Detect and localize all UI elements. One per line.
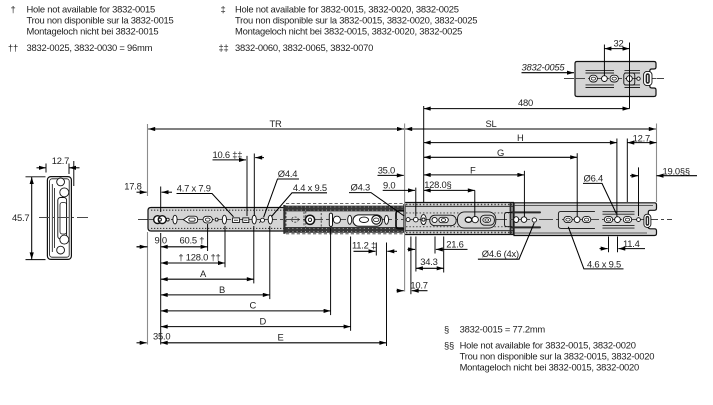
ball top inner [60, 188, 69, 197]
intermediate overlap zone dark retainer bars [284, 206, 405, 212]
svg-text:128.0§: 128.0§ [424, 179, 451, 190]
intermediate rear capsule 1 [430, 215, 457, 226]
svg-text:Montageloch nicht bei 3832-001: Montageloch nicht bei 3832-0015 [27, 25, 159, 36]
svg-text:A: A [200, 268, 207, 279]
svg-text:3832-0025, 3832-0030 = 96mm: 3832-0025, 3832-0030 = 96mm [27, 42, 153, 53]
gray ref line cabinet rear / TR-SL split [404, 124, 406, 292]
svg-text:Trou non disponible sur la 383: Trou non disponible sur la 3832-0015, 38… [460, 351, 655, 362]
hole circle 32-left [602, 76, 608, 82]
drawer inner edge lines [514, 206, 653, 233]
slot oval mid [610, 75, 618, 82]
svg-text:10.7: 10.7 [410, 279, 427, 290]
intermediate exposed zone [405, 203, 515, 235]
small circle [637, 77, 640, 80]
slot oval left [589, 75, 597, 82]
intermediate front circles [406, 218, 410, 222]
svg-text:§: § [444, 324, 449, 335]
svg-text:Ø4.3: Ø4.3 [351, 181, 370, 192]
svg-text:‡: ‡ [221, 3, 226, 14]
g1 holes [514, 217, 519, 223]
square slot 10.6 [243, 218, 249, 223]
square slot 4.7x7.9 [233, 218, 240, 223]
gray ref line drawer rear end [656, 124, 658, 203]
centerline overlay xs [39, 217, 90, 219]
boxed square hole [624, 73, 635, 85]
svg-text:Hole not available for 3832-00: Hole not available for 3832-0015, 3832-0… [460, 340, 636, 351]
drawer member body [514, 203, 657, 236]
v-oval [173, 215, 177, 224]
svg-text:Ø4.4: Ø4.4 [278, 168, 297, 179]
svg-text:TR: TR [270, 118, 283, 129]
DETAIL VIEW (top right) [424, 37, 664, 108]
g3 holes [604, 217, 612, 223]
v-oval [222, 215, 226, 224]
svg-text:3832-0060, 3832-0065, 3832-007: 3832-0060, 3832-0065, 3832-0070 [235, 42, 373, 53]
svg-text:D: D [260, 316, 267, 327]
DIMENSIONS [124, 106, 697, 346]
svg-text:††: †† [8, 42, 18, 53]
small circle [215, 218, 218, 221]
svg-text:17.8: 17.8 [124, 181, 141, 192]
inner cabinet channel lines [52, 184, 54, 252]
drawer small circle [637, 218, 641, 222]
cabinet retainer dashes [151, 209, 284, 211]
intermediate rear end cap [510, 203, 512, 235]
svg-text:3832-0015 = 77.2mm: 3832-0015 = 77.2mm [460, 324, 546, 335]
disconnect cartridge [644, 71, 652, 85]
svg-text:H: H [517, 132, 524, 143]
drawer profile [58, 198, 67, 240]
svg-text:12.7: 12.7 [633, 132, 650, 143]
svg-text:Hole not available for 3832-00: Hole not available for 3832-0015, 3832-0… [235, 3, 459, 14]
svg-text:F: F [470, 165, 476, 176]
v-oval [252, 215, 256, 224]
intermediate front end edge [283, 205, 285, 234]
v-oval 4.4x9.5 [268, 215, 272, 224]
svg-text:11.4: 11.4 [623, 238, 640, 249]
ext drawer front end [423, 106, 425, 202]
drawer group2 bracket [558, 211, 595, 228]
centerline overlay main [148, 219, 656, 221]
svg-text:† 128.0 ††: † 128.0 †† [178, 251, 220, 262]
centerline overlay [575, 78, 656, 80]
svg-text:12.7: 12.7 [52, 155, 69, 166]
drawer disconnect cartridge [644, 214, 651, 227]
cabinet rear bracket [396, 211, 405, 229]
svg-text:3832-0055: 3832-0055 [522, 62, 566, 73]
outer profile [47, 177, 71, 260]
note block top-left [8, 3, 174, 53]
bold circle hole [305, 215, 314, 224]
svg-text:4.7 x 7.9: 4.7 x 7.9 [177, 182, 211, 193]
svg-text:Montageloch nicht bei 3832-001: Montageloch nicht bei 3832-0015, 3832-00… [460, 362, 639, 373]
svg-text:Hole not available for 3832-00: Hole not available for 3832-0015 [27, 3, 155, 14]
svg-text:Trou non disponible sur la 383: Trou non disponible sur la 3832-0015 [27, 14, 174, 25]
ball bottom outer [57, 246, 65, 254]
MAIN VIEW rail assembly [138, 203, 672, 236]
svg-text:9.0: 9.0 [155, 234, 167, 245]
svg-text:4.6 x 9.5: 4.6 x 9.5 [587, 259, 621, 270]
intermediate rear C-bracket [505, 213, 513, 227]
centerline [39, 217, 90, 219]
svg-text:19.0§§: 19.0§§ [663, 166, 690, 177]
upper groove slots [586, 70, 641, 73]
svg-text:10.6 ‡‡: 10.6 ‡‡ [213, 149, 243, 160]
circle hole 4.4 [261, 218, 265, 222]
svg-text:34.3: 34.3 [420, 256, 437, 267]
hidden intermediate edges dashed [286, 202, 404, 204]
svg-text:B: B [219, 284, 225, 295]
svg-text:Montageloch nicht bei 3832-001: Montageloch nicht bei 3832-0015, 3832-00… [235, 25, 462, 36]
svg-text:Ø4.6 (4x): Ø4.6 (4x) [482, 248, 519, 259]
centerline [564, 78, 664, 80]
g2 holes [564, 217, 572, 223]
svg-text:9.0: 9.0 [383, 179, 395, 190]
svg-text:‡‡: ‡‡ [219, 42, 229, 53]
note block top-middle [219, 3, 478, 53]
lobed lever hole [154, 216, 162, 224]
small circle [166, 218, 169, 221]
note block bottom-right [444, 324, 654, 373]
intermediate slots [329, 213, 332, 226]
svg-text:Trou non disponible sur la 383: Trou non disponible sur la 3832-0015, 38… [235, 14, 477, 25]
svg-text:C: C [250, 300, 257, 311]
intermediate rear capsule 2 [458, 212, 496, 228]
drawer front grooves [512, 212, 540, 227]
svg-text:35.0: 35.0 [378, 164, 395, 175]
svg-text:21.6: 21.6 [446, 239, 463, 250]
big capsule [353, 215, 382, 226]
CROSS-SECTION VIEW (left) [12, 155, 90, 260]
svg-text:§§: §§ [444, 340, 454, 351]
cabinet rear end cap [403, 204, 405, 232]
arrow slot [183, 216, 197, 223]
lower groove slots [586, 85, 641, 88]
svg-text:†: † [11, 3, 16, 14]
svg-text:45.7: 45.7 [12, 212, 29, 223]
svg-text:Ø6.4: Ø6.4 [584, 172, 603, 183]
ball top outer [57, 178, 65, 186]
svg-text:60.5 †: 60.5 † [180, 234, 205, 245]
svg-text:11.2 ‡: 11.2 ‡ [352, 240, 376, 251]
ball bottom inner [60, 235, 69, 244]
svg-text:480: 480 [518, 97, 533, 108]
cabinet member body [148, 208, 405, 232]
left vertical ext first hole [160, 233, 162, 345]
hidden overlap details [286, 208, 304, 232]
svg-text:G: G [497, 147, 504, 158]
drawer grooves [603, 212, 635, 228]
svg-text:4.4 x 9.5: 4.4 x 9.5 [293, 182, 327, 193]
drawer front end slot [421, 215, 426, 225]
centerline main [138, 219, 672, 221]
gray ref line rail front end [147, 124, 149, 345]
detail rail body 3832-0055 [575, 62, 656, 97]
svg-text:32: 32 [614, 37, 624, 48]
svg-text:SL: SL [486, 118, 497, 129]
svg-text:35.0: 35.0 [153, 330, 170, 341]
svg-text:E: E [278, 332, 284, 343]
h capsule [203, 216, 212, 223]
